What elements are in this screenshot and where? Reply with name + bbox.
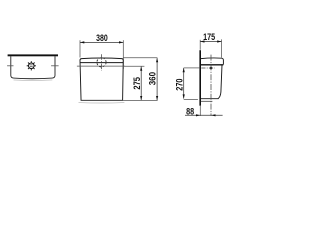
dim 175 arrow left [200, 40, 204, 42]
dim 270 bottom leader [184, 99, 198, 101]
inlet horizontal dash-dot [201, 67, 215, 69]
dim 380 arrow right [119, 41, 123, 43]
dim 88 arrow left (outside) [196, 114, 200, 116]
dim 175 extension line left [199, 40, 201, 50]
inlet vertical centerline [210, 55, 212, 116]
dim 275 arrow top [140, 66, 142, 70]
dim 275 arrow bottom [140, 96, 142, 100]
dim 270 line [183, 68, 185, 99]
bottom reference/extension line [123, 99, 158, 101]
tank lower rim (faint, front view) [79, 101, 125, 104]
dim 275 line [140, 67, 142, 101]
svg-text:275: 275 [131, 77, 142, 90]
tank lower rim (faint, top view) [14, 79, 53, 82]
dim 360 top reference line [123, 57, 157, 59]
dim 360 arrow bottom [156, 96, 158, 100]
dim 175 line [200, 41, 221, 43]
dim 360 line [156, 58, 158, 100]
tank body outline (front view) [80, 58, 123, 100]
dim 175 arrow right [217, 40, 221, 42]
dim 380 line [80, 41, 123, 43]
tank body front profile [218, 65, 222, 99]
svg-text:270: 270 [173, 79, 184, 91]
lid skirt line with overhang ticks [77, 65, 125, 67]
flush button knob (top view) [27, 61, 36, 70]
wall bar [8, 54, 58, 56]
lid seam line [80, 62, 123, 64]
svg-text:360: 360 [147, 72, 158, 85]
dim 360 arrow top [156, 58, 158, 62]
dim 88 line [185, 114, 223, 116]
centerline tick right [51, 65, 59, 67]
svg-text:380: 380 [96, 33, 108, 43]
dim 270 top leader [184, 67, 200, 69]
inlet point marker [210, 67, 213, 70]
dim 88 arrow right (outside) [211, 114, 215, 116]
dim 270 arrow top [183, 68, 185, 72]
button vertical centerline [101, 54, 103, 70]
dim 275 top reference line [123, 65, 144, 67]
back wall line [199, 50, 201, 105]
centerline tick left [7, 65, 13, 67]
dim 380 extension line right [122, 40, 124, 69]
tank body outline (top view) [11, 56, 55, 78]
dim 175 extension line right [221, 39, 223, 57]
flush button (hidden, dashed circle) [97, 58, 106, 67]
lid bottom line (side view) [201, 64, 223, 66]
dim 88 extension line [199, 106, 201, 116]
lid profile (side view) [201, 58, 223, 65]
svg-text:88: 88 [186, 107, 194, 117]
svg-text:175: 175 [203, 32, 215, 42]
dim 380 arrow left [80, 41, 84, 43]
dim 380 extension line left [79, 40, 81, 57]
tank bottom line (side view) [201, 98, 219, 100]
dim 270 arrow bottom [183, 94, 185, 98]
bottom step line (side view) [201, 100, 213, 102]
